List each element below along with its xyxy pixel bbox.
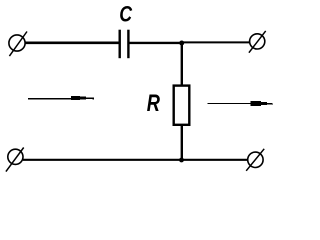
node (top junction dot) (179, 41, 184, 46)
wire (bottom rail) (23, 159, 248, 161)
capacitor C (119, 30, 130, 59)
node (bottom junction dot) (179, 158, 184, 163)
label C (119, 3, 132, 27)
wire (top rail, left segment) (25, 41, 120, 44)
wire (resistor down to bottom rail) (181, 125, 183, 160)
terminal (input bottom-left) (6, 148, 24, 172)
wire (top rail, capacitor to junction) (129, 42, 182, 44)
label R (147, 90, 161, 117)
terminal (output top-right) (249, 31, 266, 53)
wire (junction down to resistor) (181, 43, 183, 85)
svg-text:R: R (147, 90, 161, 117)
terminal (output bottom-right) (246, 149, 264, 171)
arrow (output current direction) (208, 101, 274, 106)
svg-text:C: C (119, 3, 132, 27)
resistor R (174, 86, 190, 125)
arrow (input current direction) (28, 96, 94, 100)
wire (top rail, junction to output) (181, 41, 250, 43)
terminal (input top-left) (9, 32, 27, 57)
